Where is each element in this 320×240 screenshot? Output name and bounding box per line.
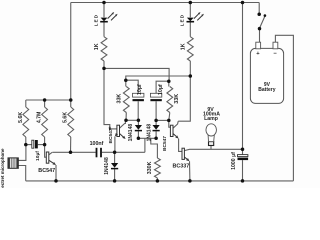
svg-text:−: − <box>274 51 278 57</box>
svg-text:1N4148: 1N4148 <box>146 124 152 142</box>
svg-text:10µf: 10µf <box>35 151 41 161</box>
svg-text:10µf: 10µf <box>137 84 143 95</box>
svg-text:LED: LED <box>180 14 186 26</box>
svg-text:100nf: 100nf <box>90 141 104 147</box>
svg-text:5.6K: 5.6K <box>18 112 24 123</box>
svg-text:4.7M: 4.7M <box>37 112 43 124</box>
svg-text:BC547: BC547 <box>38 168 55 174</box>
svg-text:1N4148: 1N4148 <box>104 157 110 175</box>
svg-text:33K: 33K <box>174 94 180 104</box>
svg-text:1K: 1K <box>94 43 100 50</box>
svg-text:1000 µf: 1000 µf <box>231 152 237 170</box>
svg-text:Battery: Battery <box>258 87 275 93</box>
svg-text:33K: 33K <box>117 94 123 104</box>
svg-text:5.6K: 5.6K <box>63 112 69 123</box>
svg-text:330K: 330K <box>147 161 153 174</box>
svg-text:Lamp: Lamp <box>204 116 218 122</box>
svg-text:1N4148: 1N4148 <box>128 124 134 142</box>
svg-text:+: + <box>256 51 260 57</box>
svg-text:electret microphone: electret microphone <box>0 148 5 188</box>
svg-text:BC337: BC337 <box>173 164 190 170</box>
svg-text:1K: 1K <box>181 43 187 50</box>
svg-text:BC547: BC547 <box>108 128 114 143</box>
svg-text:10µf: 10µf <box>158 84 164 95</box>
svg-text:BC547: BC547 <box>162 136 168 151</box>
svg-text:LED: LED <box>93 14 99 26</box>
